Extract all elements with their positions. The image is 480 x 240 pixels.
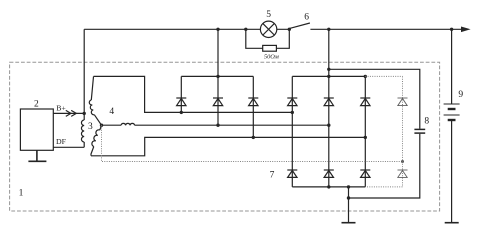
svg-text:9: 9	[458, 90, 463, 100]
diode VD9 (bridge bottom, phase C)	[364, 137, 366, 187]
main bridge bottom bus	[292, 186, 365, 188]
svg-text:DF: DF	[56, 137, 67, 146]
diode VD4 (bridge top, phase A)	[291, 76, 293, 112]
ground (battery negative)	[445, 222, 459, 224]
node B+ junction	[83, 112, 86, 115]
diode VD8 (bridge bottom, phase B)	[328, 125, 330, 187]
resistor 50Om	[263, 45, 277, 51]
wire (resistor shunt branch)	[246, 29, 289, 48]
winding phase A (top)	[91, 76, 93, 100]
main bridge 7 top bus	[292, 75, 365, 77]
wire phase A line	[94, 76, 293, 112]
svg-text:3: 3	[88, 122, 93, 132]
wire (battery to ground)	[451, 121, 453, 223]
wire phase B line	[135, 124, 329, 126]
wire (capacitor branch)	[329, 69, 420, 128]
diode VD11 (neutral bottom, gray)	[398, 169, 408, 171]
ground (under regulator 2)	[28, 150, 46, 161]
field winding (rotor coil) 3	[83, 113, 85, 147]
aux rectifier bus	[181, 75, 253, 77]
node top-rail junctions	[216, 28, 219, 31]
node neutral junction	[401, 160, 404, 163]
dotted neutral link (star point to neutral diodes)	[102, 125, 403, 161]
wire (capacitor return)	[349, 134, 420, 198]
svg-text:7: 7	[270, 171, 275, 181]
wire (B+ riser to top rail)	[83, 29, 85, 113]
diode VD3 (aux)	[252, 76, 254, 137]
svg-text:6: 6	[304, 13, 309, 23]
winding phase B (middle)	[102, 124, 122, 126]
ground (bridge negative)	[342, 222, 356, 224]
lamp 5 (charge indicator)	[260, 21, 276, 37]
wire B+ (regulator to field node)	[53, 112, 84, 114]
wire top rail (B+ bus)	[84, 28, 461, 30]
diode VD5 (bridge top, phase B)	[328, 76, 330, 125]
wire dotted (to bottom bus)	[365, 186, 402, 188]
node aux bus junction	[216, 75, 219, 78]
wire (aux rectifier feed riser)	[217, 29, 219, 76]
node B+ arrows	[66, 110, 77, 116]
svg-text:B+: B+	[56, 103, 66, 112]
wire (battery riser)	[451, 29, 453, 104]
switch 6 (ignition switch, open)	[290, 23, 310, 28]
output terminal arrow	[461, 27, 471, 33]
winding phase C (bottom)	[100, 125, 102, 130]
node star point	[100, 124, 103, 127]
svg-text:2: 2	[34, 99, 39, 109]
wire phase C line	[91, 137, 365, 155]
diode VD1 (aux)	[180, 76, 182, 112]
svg-text:5: 5	[266, 10, 271, 20]
battery 9	[444, 103, 460, 105]
wire DF (regulator to field coil)	[53, 146, 84, 148]
diode VD7 (bridge bottom, phase A)	[291, 112, 293, 186]
dashed enclosure 1 (alternator boundary)	[10, 62, 440, 211]
svg-text:8: 8	[424, 116, 429, 126]
diode VD6 (bridge top, phase C)	[364, 76, 366, 137]
capacitor 8	[414, 128, 425, 130]
wire (main bridge feed riser)	[328, 29, 330, 76]
regulator box 2	[20, 109, 53, 150]
diode VD10 (neutral top, gray)	[398, 98, 408, 177]
dotted bus extension (to neutral diodes)	[365, 76, 402, 186]
svg-text:1: 1	[19, 189, 24, 199]
svg-text:50Ом: 50Ом	[264, 54, 279, 61]
svg-text:4: 4	[109, 107, 114, 117]
diode VD2 (aux)	[217, 76, 219, 125]
wire (ground tap)	[348, 187, 350, 223]
